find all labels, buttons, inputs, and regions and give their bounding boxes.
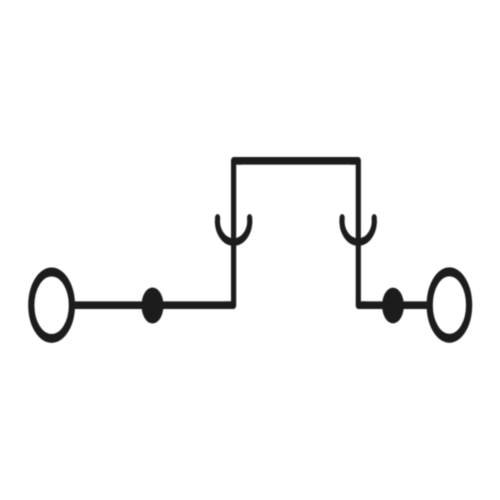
wire: right riser (vertical) with corner bends <box>350 161 366 305</box>
fork contact: left disconnect hook on left riser <box>217 218 249 242</box>
wire: bottom-right horizontal feed from right riser to right terminal <box>358 303 429 308</box>
terminal point: right clamp opening (open ellipse) <box>430 272 469 338</box>
terminal point: left clamp opening (open ellipse) <box>31 272 72 338</box>
wire: left riser (vertical) with corner bends <box>225 161 242 305</box>
junction: right connection dot <box>382 288 404 324</box>
wire: bottom-left horizontal feed from left terminal to left riser <box>70 303 234 308</box>
junction: left connection dot <box>142 288 164 324</box>
fork contact: right disconnect hook on right riser <box>342 218 374 242</box>
wire: top bridge (horizontal) <box>234 158 359 163</box>
